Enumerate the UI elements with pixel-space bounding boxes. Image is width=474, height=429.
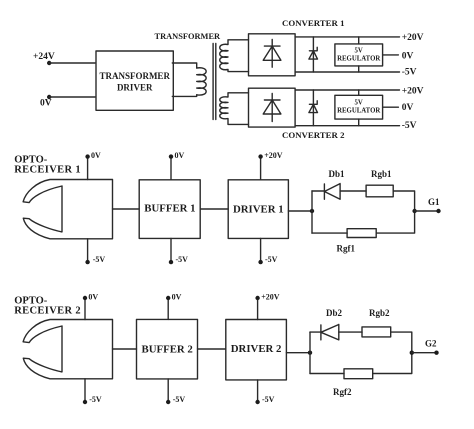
wire bottom branch to Rgf1 [312,232,347,234]
svg-text:0V: 0V [402,103,414,113]
svg-text:CONVERTER 2: CONVERTER 2 [282,130,345,140]
svg-text:-5V: -5V [173,395,186,404]
svg-text:TRANSFORMER: TRANSFORMER [154,32,221,41]
svg-text:-5V: -5V [262,395,275,404]
converter 1 +20V rail [295,36,399,38]
wire to G1 [415,210,439,212]
wire driver 1 output [288,210,312,212]
wire driver to primary top [172,63,196,68]
wire vertical branch 2 [309,332,311,373]
svg-text:Db2: Db2 [326,308,343,318]
node G2 [434,351,438,355]
svg-text:-5V: -5V [402,121,417,131]
node junction right 2 [410,351,414,355]
transformer driver U1 box [96,51,173,110]
diode Db1 [324,184,340,200]
node junction left 2 [308,351,312,355]
transformer core [213,44,216,120]
transformer primary winding [197,68,206,95]
transformer secondary 1 [220,40,249,72]
svg-text:Rgf2: Rgf2 [333,387,352,397]
svg-text:+20V: +20V [261,292,280,301]
svg-text:+24V: +24V [33,52,55,62]
wire vertical branch 1 [311,191,313,233]
5V regulator 1 box [335,44,383,66]
driver 2 +20V wire [257,298,259,320]
driver 1 +20V wire [260,157,262,180]
svg-text:DRIVER 2: DRIVER 2 [231,343,282,355]
svg-text:G1: G1 [428,197,440,207]
svg-text:0V: 0V [175,151,185,160]
opto-receiver 1 symbol [23,180,112,239]
svg-text:RECEIVER 1: RECEIVER 1 [14,165,81,176]
buffer 1 box [139,180,200,239]
opto-receiver 1 0V wire [87,157,89,180]
wire top branch to Db1 [312,190,324,192]
buffer 2 0V wire [167,298,169,319]
wire Rgb2 to right corner [391,332,412,353]
svg-text:Rgf1: Rgf1 [337,244,356,254]
converter 2 +20V rail [295,89,399,91]
wire Rgf2 to right corner [373,353,412,374]
wire receiver 1 to buffer 1 [113,208,140,210]
svg-text:DRIVER 1: DRIVER 1 [233,204,284,216]
transformer secondary 2 [220,93,249,125]
driver 2 box [226,320,287,380]
node 0V junction [47,95,51,99]
svg-text:+20V: +20V [264,151,283,160]
svg-text:5V: 5V [355,48,363,55]
wire Rgf1 to right corner [376,211,414,233]
svg-text:-5V: -5V [176,255,189,264]
wire bottom branch to Rgf2 [310,373,344,375]
wire Rgb1 to right corner [393,191,414,211]
svg-text:-5V: -5V [265,255,278,264]
driver 2 -5V wire [257,380,259,402]
svg-text:BUFFER 1: BUFFER 1 [144,202,195,214]
converter 1 diode [263,40,281,68]
node G1 [436,209,440,213]
resistor Rgf1 [347,229,376,238]
converter 2 box [249,88,296,127]
resistor Rgf2 [344,369,373,379]
wire Db1 to Rgb1 [340,190,366,192]
opto-receiver 1 -5V wire [87,239,89,262]
wire to G2 [412,352,437,354]
svg-text:0V: 0V [172,292,182,301]
svg-text:+20V: +20V [402,87,424,97]
converter 1 -5V rail [295,71,399,73]
converter 2 -5V rail [295,125,399,127]
svg-text:REGULATOR: REGULATOR [337,56,380,63]
opto-receiver 2 symbol [23,320,112,379]
svg-text:G2: G2 [425,339,437,349]
converter 1 box [249,34,296,76]
svg-text:Rgb1: Rgb1 [371,169,392,179]
svg-text:Rgb2: Rgb2 [369,308,390,318]
resistor Rgb2 [362,327,391,337]
5V regulator 2 box [335,95,383,119]
driver 1 -5V wire [260,238,262,262]
wire Db2 to Rgb2 [339,331,362,333]
wire 0V to transformer driver [49,96,95,98]
svg-text:0V: 0V [88,292,98,301]
buffer 1 -5V wire [170,238,172,262]
5V regulator 2 stubs [359,90,399,126]
svg-text:-5V: -5V [402,67,417,77]
svg-text:-5V: -5V [89,395,102,404]
svg-text:5V: 5V [355,100,363,107]
node junction right 1 [412,209,416,213]
svg-text:+20V: +20V [402,33,424,43]
zener diode converter 2 [309,90,318,126]
svg-text:DRIVER: DRIVER [117,82,153,92]
node junction left 1 [310,209,314,213]
converter 2 diode [263,94,281,122]
5V regulator 1 stubs [359,37,399,72]
svg-text:CONVERTER 1: CONVERTER 1 [282,18,345,28]
svg-text:REGULATOR: REGULATOR [337,108,380,115]
wire driver 2 output [286,352,310,354]
resistor Rgb1 [366,185,393,197]
opto-receiver 2 -5V wire [84,379,86,402]
wire receiver 2 to buffer 2 [113,348,137,350]
wire buffer 2 to driver 2 [198,348,226,350]
wire buffer 1 to driver 1 [200,208,228,210]
buffer 2 -5V wire [167,379,169,402]
wire +24V to transformer driver [49,62,95,64]
buffer 2 box [137,319,198,379]
driver 1 box [228,180,288,239]
zener diode converter 1 [309,37,318,72]
diode Db2 [321,325,339,340]
svg-text:TRANSFORMER: TRANSFORMER [99,71,170,81]
svg-text:RECEIVER 2: RECEIVER 2 [14,306,81,317]
node +24V junction [47,61,51,65]
svg-text:0V: 0V [40,98,52,108]
buffer 1 0V wire [170,157,172,180]
svg-text:0V: 0V [402,52,414,62]
svg-text:0V: 0V [91,151,101,160]
svg-text:Db1: Db1 [329,169,346,179]
opto-receiver 2 0V wire [84,298,86,320]
wire primary bottom to driver [172,95,196,97]
svg-text:-5V: -5V [93,255,106,264]
wire top branch to Db2 [310,331,321,333]
svg-text:BUFFER 2: BUFFER 2 [142,343,193,355]
